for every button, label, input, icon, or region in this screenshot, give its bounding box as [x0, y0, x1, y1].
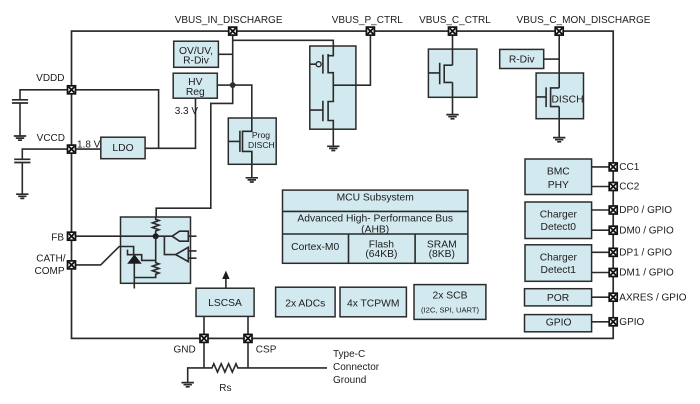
svg-text:2x SCB: 2x SCB: [433, 291, 468, 302]
svg-text:Reg: Reg: [186, 87, 205, 98]
svg-text:Advanced High- Performance Bus: Advanced High- Performance Bus: [297, 213, 453, 224]
svg-text:(64KB): (64KB): [365, 249, 397, 260]
svg-text:DP1 / GPIO: DP1 / GPIO: [619, 248, 672, 259]
svg-text:VBUS_C_CTRL: VBUS_C_CTRL: [419, 15, 491, 26]
svg-text:LDO: LDO: [112, 143, 133, 154]
svg-text:CC1: CC1: [619, 162, 639, 173]
svg-text:(I2C, SPI, UART): (I2C, SPI, UART): [421, 305, 480, 314]
svg-text:LSCSA: LSCSA: [208, 298, 242, 309]
svg-text:DP0 / GPIO: DP0 / GPIO: [619, 205, 672, 216]
svg-text:DISCH: DISCH: [248, 140, 275, 150]
svg-text:Cortex-M0: Cortex-M0: [291, 242, 339, 253]
svg-text:DM0 / GPIO: DM0 / GPIO: [619, 225, 674, 236]
svg-text:CATH/: CATH/: [36, 254, 65, 265]
svg-text:MCU Subsystem: MCU Subsystem: [337, 192, 414, 203]
svg-text:Prog: Prog: [252, 130, 270, 140]
svg-text:Ground: Ground: [333, 375, 366, 386]
svg-text:VBUS_IN_DISCHARGE: VBUS_IN_DISCHARGE: [175, 15, 283, 26]
svg-text:POR: POR: [547, 293, 569, 304]
svg-text:BMC: BMC: [547, 167, 570, 178]
svg-text:VDDD: VDDD: [36, 73, 64, 84]
svg-text:CC2: CC2: [619, 182, 639, 193]
svg-text:2x ADCs: 2x ADCs: [285, 298, 325, 309]
svg-text:VBUS_P_CTRL: VBUS_P_CTRL: [332, 15, 404, 26]
svg-text:3.3 V: 3.3 V: [175, 106, 199, 117]
svg-text:Connector: Connector: [333, 362, 380, 373]
svg-text:R-Div: R-Div: [183, 56, 210, 67]
svg-text:GPIO: GPIO: [546, 318, 572, 329]
svg-text:(AHB): (AHB): [361, 224, 389, 235]
svg-text:FB: FB: [51, 232, 64, 243]
svg-text:(8KB): (8KB): [429, 249, 455, 260]
svg-text:DISCH: DISCH: [552, 94, 584, 105]
svg-text:4x TCPWM: 4x TCPWM: [347, 298, 399, 309]
svg-text:COMP: COMP: [35, 266, 65, 277]
svg-text:Type-C: Type-C: [333, 349, 365, 360]
svg-text:CSP: CSP: [256, 345, 277, 356]
svg-text:GND: GND: [174, 344, 196, 355]
svg-text:Charger: Charger: [540, 252, 578, 263]
svg-text:VBUS_C_MON_DISCHARGE: VBUS_C_MON_DISCHARGE: [517, 15, 651, 26]
svg-text:AXRES / GPIO: AXRES / GPIO: [619, 292, 686, 303]
svg-text:Rs: Rs: [219, 383, 231, 394]
svg-text:Detect1: Detect1: [541, 265, 577, 276]
svg-text:PHY: PHY: [548, 180, 569, 191]
svg-text:R-Div: R-Div: [509, 54, 536, 65]
svg-text:GPIO: GPIO: [619, 317, 644, 328]
svg-text:Detect0: Detect0: [541, 222, 577, 233]
svg-text:DM1 / GPIO: DM1 / GPIO: [619, 268, 674, 279]
svg-text:VCCD: VCCD: [37, 133, 65, 144]
svg-text:1.8 V: 1.8 V: [77, 139, 101, 150]
svg-text:Charger: Charger: [540, 210, 578, 221]
